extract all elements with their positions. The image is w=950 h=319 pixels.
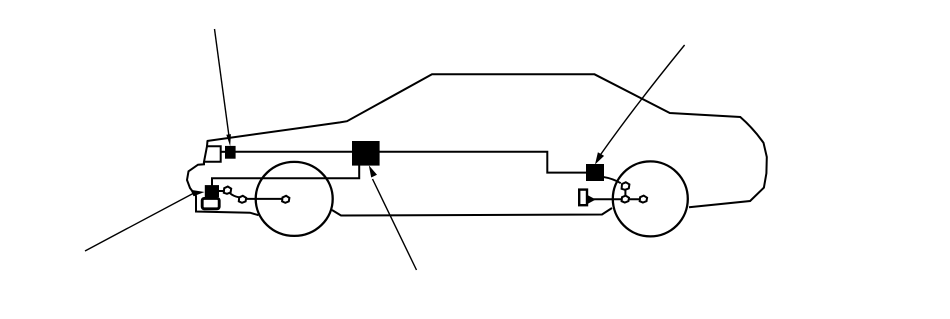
car body upper outline (hood, windshield, roof, rear window, trunk, rear face) <box>207 74 767 207</box>
rear wheel <box>613 161 688 236</box>
ABS control unit U1 (black box) <box>352 141 380 166</box>
wire: front modulator to link A <box>219 190 225 192</box>
front modulator M1 (black square) <box>205 185 219 197</box>
car front lower body outline (bumper) <box>187 162 259 215</box>
wire: ECU to rear sensor (with step down) <box>380 152 587 173</box>
rear bracket rectangle <box>579 190 587 206</box>
callout arrowhead 2 <box>191 190 205 197</box>
car rocker panel bottom line between wheels <box>332 208 612 216</box>
callout arrowhead 3 <box>595 152 604 164</box>
wire: rear upper joint to lower joint <box>624 190 626 197</box>
wire: link B to front hub <box>246 198 283 200</box>
car body front face segment <box>206 141 209 147</box>
rear lower joint (small pentagon) <box>622 196 629 203</box>
callout line 1 (to front sensor, from top) <box>215 29 229 136</box>
wire: rear sensor to upper joint (curved) <box>603 177 621 183</box>
front link joint B (small pentagon) <box>239 196 246 203</box>
callout line 3 (to rear sensor, from top right) <box>599 45 685 158</box>
rear sensor G2 (black square) <box>586 164 604 181</box>
front modulator base (rounded rectangle) <box>202 198 219 208</box>
rear right joint (small pentagon) <box>640 196 647 203</box>
rear upper joint (small pentagon) <box>622 182 630 190</box>
headlight trapezoid <box>204 146 221 162</box>
front sensor G1 (black square) <box>225 146 236 159</box>
wire: rear bracket to hub joints <box>594 198 641 200</box>
wire: front sensor to ECU <box>235 151 352 153</box>
front link joint A (small pentagon) <box>224 187 231 194</box>
wire: headlight to front sensor <box>221 151 225 153</box>
callout arrowhead 4 <box>369 165 377 177</box>
front hub joint (small pentagon) <box>282 196 289 203</box>
front wheel <box>256 162 333 236</box>
callout line 4 (to ECU, from bottom) <box>373 179 417 270</box>
wire: link A to link B (curved) <box>230 193 240 198</box>
rear bracket triangle <box>588 196 595 203</box>
callout line 2 (to front modulator, from bottom left) <box>85 193 194 251</box>
callout arrowhead 1 <box>226 134 231 146</box>
wire: front modulator up and to ECU bottom <box>212 165 359 186</box>
